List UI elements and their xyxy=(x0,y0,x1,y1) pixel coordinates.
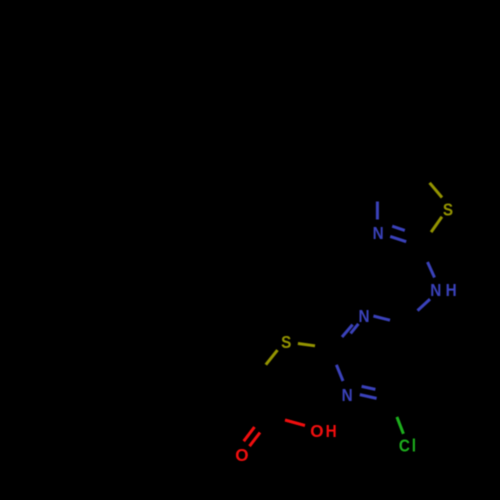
wire NH-pyrimidine C6 half-bond xyxy=(418,299,431,311)
wire C4-Cl half-bond xyxy=(397,417,404,434)
svg-text:O: O xyxy=(310,420,323,441)
wire thiazole S1-C2 half-bond xyxy=(431,217,442,232)
wire carboxyl C=O double bond inner half xyxy=(244,427,255,441)
wire thiazole N3=C2 double bond inner half xyxy=(392,226,405,230)
wire pyrimidine N1=C2 double bond inner half xyxy=(351,324,359,334)
wire pyrimidine N3=C4 double bond inner half xyxy=(362,386,376,389)
wire carboxyl C-OH half-bond xyxy=(285,420,305,426)
wire thiazole N3=C2 double bond main half xyxy=(390,236,406,241)
svg-text:H: H xyxy=(326,421,337,441)
svg-text:C: C xyxy=(399,435,410,455)
wire pyrimidine N1-C6 half-bond xyxy=(373,316,390,320)
svg-text:S: S xyxy=(281,332,291,352)
svg-text:H: H xyxy=(446,280,457,300)
wire pyrimidine N1=C2 double bond main half xyxy=(342,325,353,337)
wire thiazole N3-C4 half-bond xyxy=(376,202,379,220)
svg-text:l: l xyxy=(412,435,416,455)
wire pyrimidine C2-S thioether half-bond xyxy=(298,344,315,346)
svg-text:N: N xyxy=(342,385,353,405)
wire thiazole S1-C5 half-bond xyxy=(430,183,442,198)
wire pyrimidine N3=C4 double bond main half xyxy=(360,395,377,399)
svg-text:O: O xyxy=(235,444,248,465)
wire pyrimidine C2-N3 half-bond xyxy=(336,365,343,381)
svg-text:N: N xyxy=(373,223,384,243)
svg-text:S: S xyxy=(443,199,453,219)
wire thiazole C2-NH half-bond xyxy=(428,262,435,278)
wire carboxyl C=O double bond main half xyxy=(250,433,261,447)
svg-text:N: N xyxy=(430,280,441,300)
svg-text:N: N xyxy=(358,306,369,326)
wire thioether S-CH half-bond xyxy=(266,350,278,365)
